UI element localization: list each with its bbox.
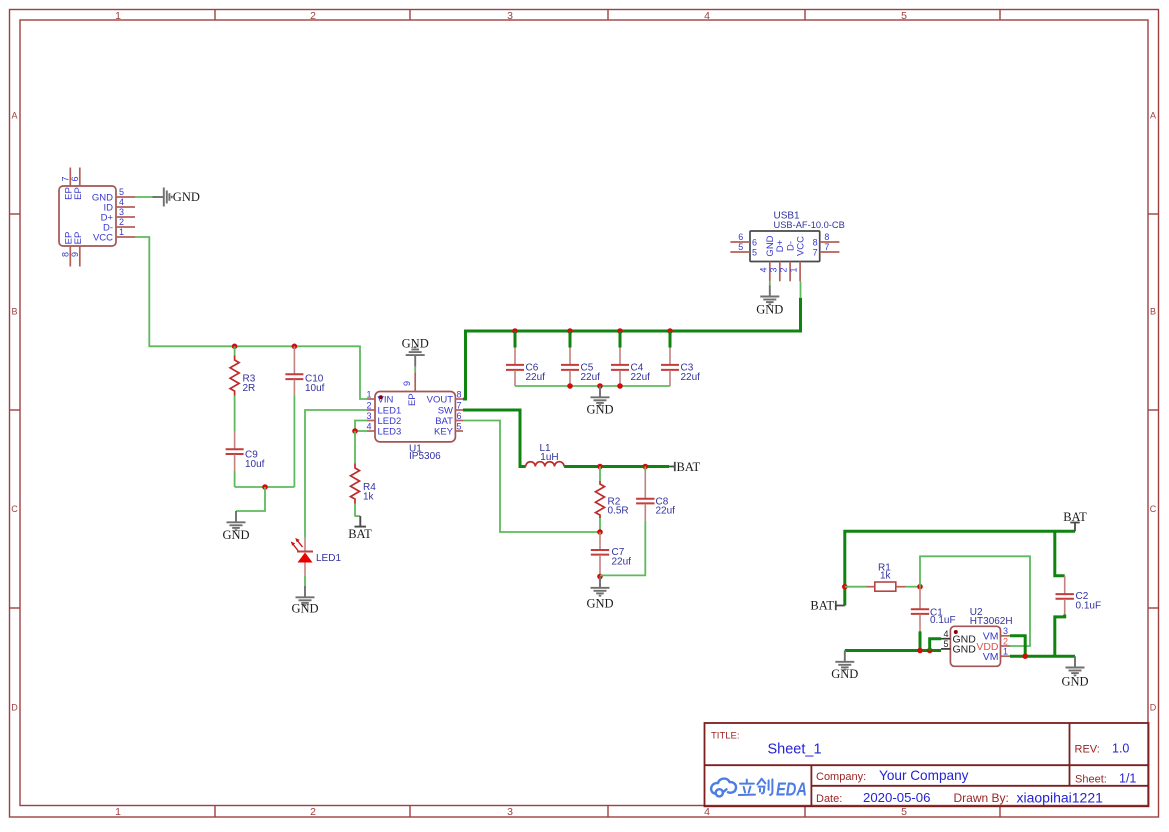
- svg-text:3: 3: [1003, 626, 1008, 636]
- ground GND (below LED1): [291, 586, 318, 616]
- svg-text:GND: GND: [831, 667, 858, 681]
- svg-text:VCC: VCC: [796, 236, 807, 256]
- svg-text:5: 5: [457, 422, 462, 432]
- svg-text:GND: GND: [953, 644, 977, 656]
- svg-text:22uf: 22uf: [612, 557, 632, 568]
- svg-text:22uf: 22uf: [656, 506, 676, 517]
- capacitor C6: [506, 348, 524, 387]
- wire EP to GND: [414, 366, 416, 372]
- wire pin4 to junction: [355, 430, 368, 432]
- capacitor C3: [661, 348, 679, 387]
- wire R1 left: [845, 586, 867, 588]
- svg-text:4: 4: [943, 629, 948, 639]
- netflag BAT (below R4): [348, 516, 372, 541]
- svg-text:KEY: KEY: [434, 427, 454, 438]
- svg-text:SW: SW: [438, 406, 453, 417]
- wire net VIN (USB VCC to R3/C10/U1): [135, 237, 368, 399]
- junction (R1 right / C1 top): [917, 584, 923, 590]
- svg-text:8: 8: [457, 390, 462, 400]
- svg-text:HT3062H: HT3062H: [970, 616, 1013, 627]
- ground GND (below USB1): [756, 285, 783, 316]
- svg-text:3: 3: [768, 267, 778, 272]
- junction (C10 top): [292, 344, 298, 350]
- logo text 立创: [739, 779, 773, 795]
- svg-text:2020-05-06: 2020-05-06: [863, 790, 930, 805]
- wire C5 stub: [569, 331, 572, 348]
- wire GND tap: [236, 487, 265, 511]
- svg-text:5: 5: [943, 639, 948, 649]
- USB micro pin names: [64, 187, 114, 244]
- svg-text:Sheet:: Sheet:: [1075, 774, 1107, 786]
- wire U1 BAT pin6: [463, 421, 600, 533]
- ground GND (above U1): [402, 337, 429, 367]
- svg-text:C: C: [1150, 504, 1157, 514]
- junction (C8 top): [643, 464, 649, 470]
- svg-text:B: B: [11, 307, 17, 317]
- svg-text:4: 4: [366, 422, 371, 432]
- wire caps bottom rail: [515, 385, 670, 387]
- svg-text:Your Company: Your Company: [879, 768, 969, 783]
- wire C2 branch: [1055, 531, 1065, 576]
- logo LCEDA cloud: [711, 779, 736, 797]
- ground GND (below C7): [586, 577, 613, 611]
- svg-text:BAT: BAT: [810, 599, 834, 613]
- label C5 22uf: [581, 362, 601, 383]
- wire C6 stub: [514, 331, 517, 348]
- svg-text:3: 3: [119, 207, 124, 217]
- svg-text:USB-AF-10.0-CB: USB-AF-10.0-CB: [774, 220, 845, 230]
- svg-text:GND: GND: [173, 190, 200, 204]
- label C6 22uf: [526, 362, 546, 383]
- svg-text:8: 8: [813, 237, 818, 247]
- resistor R2: [596, 467, 605, 533]
- svg-text:0.5R: 0.5R: [608, 506, 629, 517]
- svg-text:LED3: LED3: [378, 427, 402, 438]
- label C7 22uf: [612, 547, 632, 568]
- wire C8 bottom to C7 bottom: [600, 521, 645, 576]
- connector USB1 USB-AF-10.0-CB: [730, 231, 839, 281]
- svg-text:6: 6: [70, 176, 80, 181]
- label R4 1k: [363, 482, 376, 503]
- junction (C7 bottom): [597, 574, 603, 580]
- svg-text:1.0: 1.0: [1112, 742, 1129, 756]
- capacitor C5: [561, 348, 579, 387]
- label C2 0.1uF: [1076, 591, 1102, 612]
- svg-text:BAT: BAT: [348, 527, 372, 541]
- resistor R1 (box style): [867, 582, 906, 591]
- wire VOUT rail: [463, 298, 801, 399]
- svg-text:LED1: LED1: [316, 553, 341, 564]
- capacitor C8: [636, 467, 654, 521]
- svg-text:BAT: BAT: [677, 460, 701, 474]
- resistor R4: [351, 431, 360, 517]
- label C4 22uf: [631, 362, 651, 383]
- junction (C5 top): [567, 328, 573, 334]
- label C3 22uf: [681, 362, 701, 383]
- wire U2 GND rail (left): [845, 649, 941, 652]
- netflag BAT (right of L1): [669, 460, 700, 474]
- label C10 10uf: [305, 374, 325, 395]
- capacitor C1: [911, 587, 929, 651]
- label U2 HT3062H: [970, 607, 1013, 627]
- frame column numbers top: [115, 10, 907, 22]
- junction (R1 left): [842, 584, 848, 590]
- svg-text:5: 5: [738, 242, 743, 252]
- svg-text:Company:: Company:: [816, 771, 866, 783]
- svg-text:VIN: VIN: [378, 395, 394, 406]
- svg-text:EP: EP: [73, 187, 84, 200]
- junction (R4 top): [352, 428, 358, 434]
- svg-text:8: 8: [824, 232, 829, 242]
- svg-text:1: 1: [1003, 647, 1008, 657]
- junction (C6 top): [512, 328, 518, 334]
- IC U1 IP5306: [368, 372, 464, 442]
- wire LED1 net (U1 pin2): [305, 410, 368, 537]
- svg-text:22uf: 22uf: [526, 372, 546, 383]
- svg-text:D: D: [1150, 703, 1157, 713]
- junction (R2 top): [597, 464, 603, 470]
- wire USB1 GND: [769, 281, 771, 285]
- ground GND (left of U2): [831, 651, 858, 682]
- svg-text:EDA: EDA: [776, 779, 807, 799]
- LED LED1: [291, 537, 313, 586]
- svg-text:6: 6: [738, 232, 743, 242]
- USB1 pin names: [765, 235, 806, 256]
- svg-text:4: 4: [704, 10, 710, 22]
- junction (R2 bottom / C7 top): [597, 529, 603, 535]
- svg-text:22uf: 22uf: [681, 372, 701, 383]
- svg-text:4: 4: [758, 267, 768, 272]
- wire VDD sense (thin): [920, 556, 1030, 646]
- junction (C3 top): [667, 328, 673, 334]
- ground GND (below caps): [586, 386, 613, 416]
- svg-text:LED2: LED2: [378, 416, 402, 427]
- wire C3 stub: [669, 331, 672, 348]
- svg-text:0.1uF: 0.1uF: [1076, 601, 1102, 612]
- ground GND (below C9): [222, 511, 249, 542]
- svg-text:4: 4: [119, 197, 124, 207]
- U1 pin numbers: [366, 381, 461, 432]
- inductor L1: [526, 462, 564, 467]
- wire GND pin5: [135, 196, 156, 198]
- svg-text:2: 2: [310, 10, 316, 22]
- svg-text:Sheet_1: Sheet_1: [768, 741, 822, 757]
- ground GND (right of USB micro): [153, 188, 200, 207]
- svg-text:BAT: BAT: [435, 416, 453, 427]
- svg-text:3: 3: [366, 411, 371, 421]
- label C9 10uf: [245, 450, 265, 471]
- svg-text:D: D: [11, 703, 18, 713]
- svg-text:7: 7: [813, 247, 818, 257]
- svg-text:7: 7: [457, 401, 462, 411]
- svg-text:2R: 2R: [243, 383, 256, 394]
- junction (C5 bottom): [567, 383, 573, 389]
- svg-text:10uf: 10uf: [305, 383, 325, 394]
- IC U2 HT3062H: [941, 626, 1010, 666]
- label L1 1uH: [540, 443, 559, 463]
- junction (R3 top): [232, 344, 238, 350]
- svg-text:1: 1: [789, 267, 799, 272]
- svg-text:1: 1: [115, 10, 121, 22]
- svg-text:2: 2: [310, 806, 316, 818]
- svg-text:EP: EP: [407, 393, 418, 406]
- svg-text:TITLE:: TITLE:: [711, 731, 740, 742]
- netflag BAT (top right): [1063, 510, 1087, 531]
- title block grid: [705, 723, 1149, 806]
- wire C4 stub: [619, 331, 622, 348]
- frame column numbers bottom: [115, 806, 907, 818]
- svg-text:2: 2: [366, 401, 371, 411]
- svg-text:4: 4: [704, 806, 710, 818]
- frame row letters right: [1150, 111, 1157, 713]
- capacitor C10: [285, 346, 303, 487]
- svg-text:GND: GND: [1061, 675, 1088, 689]
- svg-text:3: 3: [507, 806, 513, 818]
- capacitor C9: [226, 431, 244, 487]
- wire R3/C9 bottom to GND: [235, 486, 295, 488]
- svg-text:22uf: 22uf: [631, 372, 651, 383]
- label R1 1k: [878, 563, 892, 582]
- junction (GND tap caps): [597, 383, 603, 389]
- wire L1 to BAT: [564, 465, 669, 468]
- svg-text:6: 6: [752, 237, 757, 247]
- svg-text:GND: GND: [222, 528, 249, 542]
- wire pin3 to GND rail: [1010, 636, 1025, 656]
- svg-text:C: C: [11, 504, 18, 514]
- svg-text:1: 1: [115, 806, 121, 818]
- svg-text:B: B: [1150, 307, 1156, 317]
- svg-text:Drawn By:: Drawn By:: [954, 791, 1009, 805]
- svg-text:VM: VM: [983, 651, 999, 663]
- svg-text:7: 7: [824, 242, 829, 252]
- resistor R3: [230, 346, 239, 431]
- U2 pin numbers: [943, 626, 1008, 657]
- U2 pin names: [953, 631, 999, 664]
- wire R1 right: [906, 586, 921, 588]
- svg-text:GND: GND: [291, 602, 318, 616]
- svg-text:GND: GND: [402, 337, 429, 351]
- svg-text:GND: GND: [586, 402, 613, 416]
- wire BAT top rail: [845, 531, 1075, 605]
- ground GND (right of U2): [1061, 656, 1088, 688]
- wire C2 bottom to GND rail: [1055, 615, 1065, 657]
- wire pin4 tap: [930, 639, 941, 651]
- svg-text:1k: 1k: [880, 571, 892, 582]
- svg-text:Date:: Date:: [816, 793, 842, 805]
- U1 pin names: [378, 393, 454, 437]
- svg-text:xiaopihai1221: xiaopihai1221: [1017, 790, 1104, 806]
- svg-text:VCC: VCC: [93, 233, 113, 244]
- capacitor C7: [591, 532, 609, 577]
- svg-text:GND: GND: [586, 597, 613, 611]
- svg-text:EP: EP: [73, 232, 84, 245]
- svg-text:5: 5: [901, 806, 907, 818]
- label R2 0.5R: [608, 497, 629, 517]
- wire USB1 VCC drop: [800, 281, 802, 298]
- junction (GND tap): [262, 484, 268, 490]
- svg-text:A: A: [1150, 111, 1156, 121]
- svg-text:5: 5: [901, 10, 907, 22]
- USB1 pin numbers: [738, 232, 829, 273]
- svg-text:A: A: [11, 111, 17, 121]
- label U1 IP5306: [409, 444, 441, 463]
- svg-text:1uH: 1uH: [540, 452, 558, 463]
- svg-text:10uf: 10uf: [245, 459, 265, 470]
- svg-text:2: 2: [1003, 636, 1008, 646]
- svg-text:GND: GND: [756, 303, 783, 317]
- svg-text:REV:: REV:: [1075, 744, 1100, 756]
- svg-text:2: 2: [779, 267, 789, 272]
- capacitor C2: [1056, 576, 1074, 615]
- capacitor C4: [611, 348, 629, 387]
- svg-text:1/1: 1/1: [1119, 772, 1136, 786]
- svg-text:LED1: LED1: [378, 406, 402, 417]
- junction (C4 bottom): [617, 383, 623, 389]
- svg-text:9: 9: [70, 252, 80, 257]
- USB micro pin numbers: [61, 176, 125, 257]
- wire SW to L1: [463, 410, 526, 467]
- connector USB micro (top-left): [59, 168, 135, 267]
- svg-text:22uf: 22uf: [581, 372, 601, 383]
- label USB1 USB-AF-10.0-CB: [774, 211, 845, 230]
- svg-text:6: 6: [457, 411, 462, 421]
- junction (pin3 tap): [1022, 653, 1028, 659]
- label R3 2R: [243, 374, 256, 395]
- svg-text:1: 1: [366, 390, 371, 400]
- svg-text:IP5306: IP5306: [409, 451, 441, 462]
- svg-text:3: 3: [507, 10, 513, 22]
- svg-text:0.1uF: 0.1uF: [930, 615, 956, 626]
- label C1 0.1uF: [930, 607, 956, 626]
- svg-text:VOUT: VOUT: [427, 395, 454, 406]
- junction (C1 bottom): [917, 648, 923, 654]
- wire U2 GND rail (right): [1010, 655, 1075, 658]
- svg-text:9: 9: [402, 381, 412, 386]
- svg-text:BAT: BAT: [1063, 510, 1087, 524]
- junction (C4 top): [617, 328, 623, 334]
- label C8 22uf: [656, 497, 676, 517]
- netflag BAT (left of U2): [810, 599, 844, 613]
- junction (pin4 tap): [927, 648, 933, 654]
- svg-text:2: 2: [119, 217, 124, 227]
- svg-text:1: 1: [119, 227, 124, 237]
- svg-text:5: 5: [119, 187, 124, 197]
- frame row letters left: [11, 111, 18, 713]
- wire LED2/LED3 to R4: [355, 421, 368, 432]
- svg-text:1k: 1k: [363, 492, 375, 503]
- svg-text:5: 5: [752, 247, 757, 257]
